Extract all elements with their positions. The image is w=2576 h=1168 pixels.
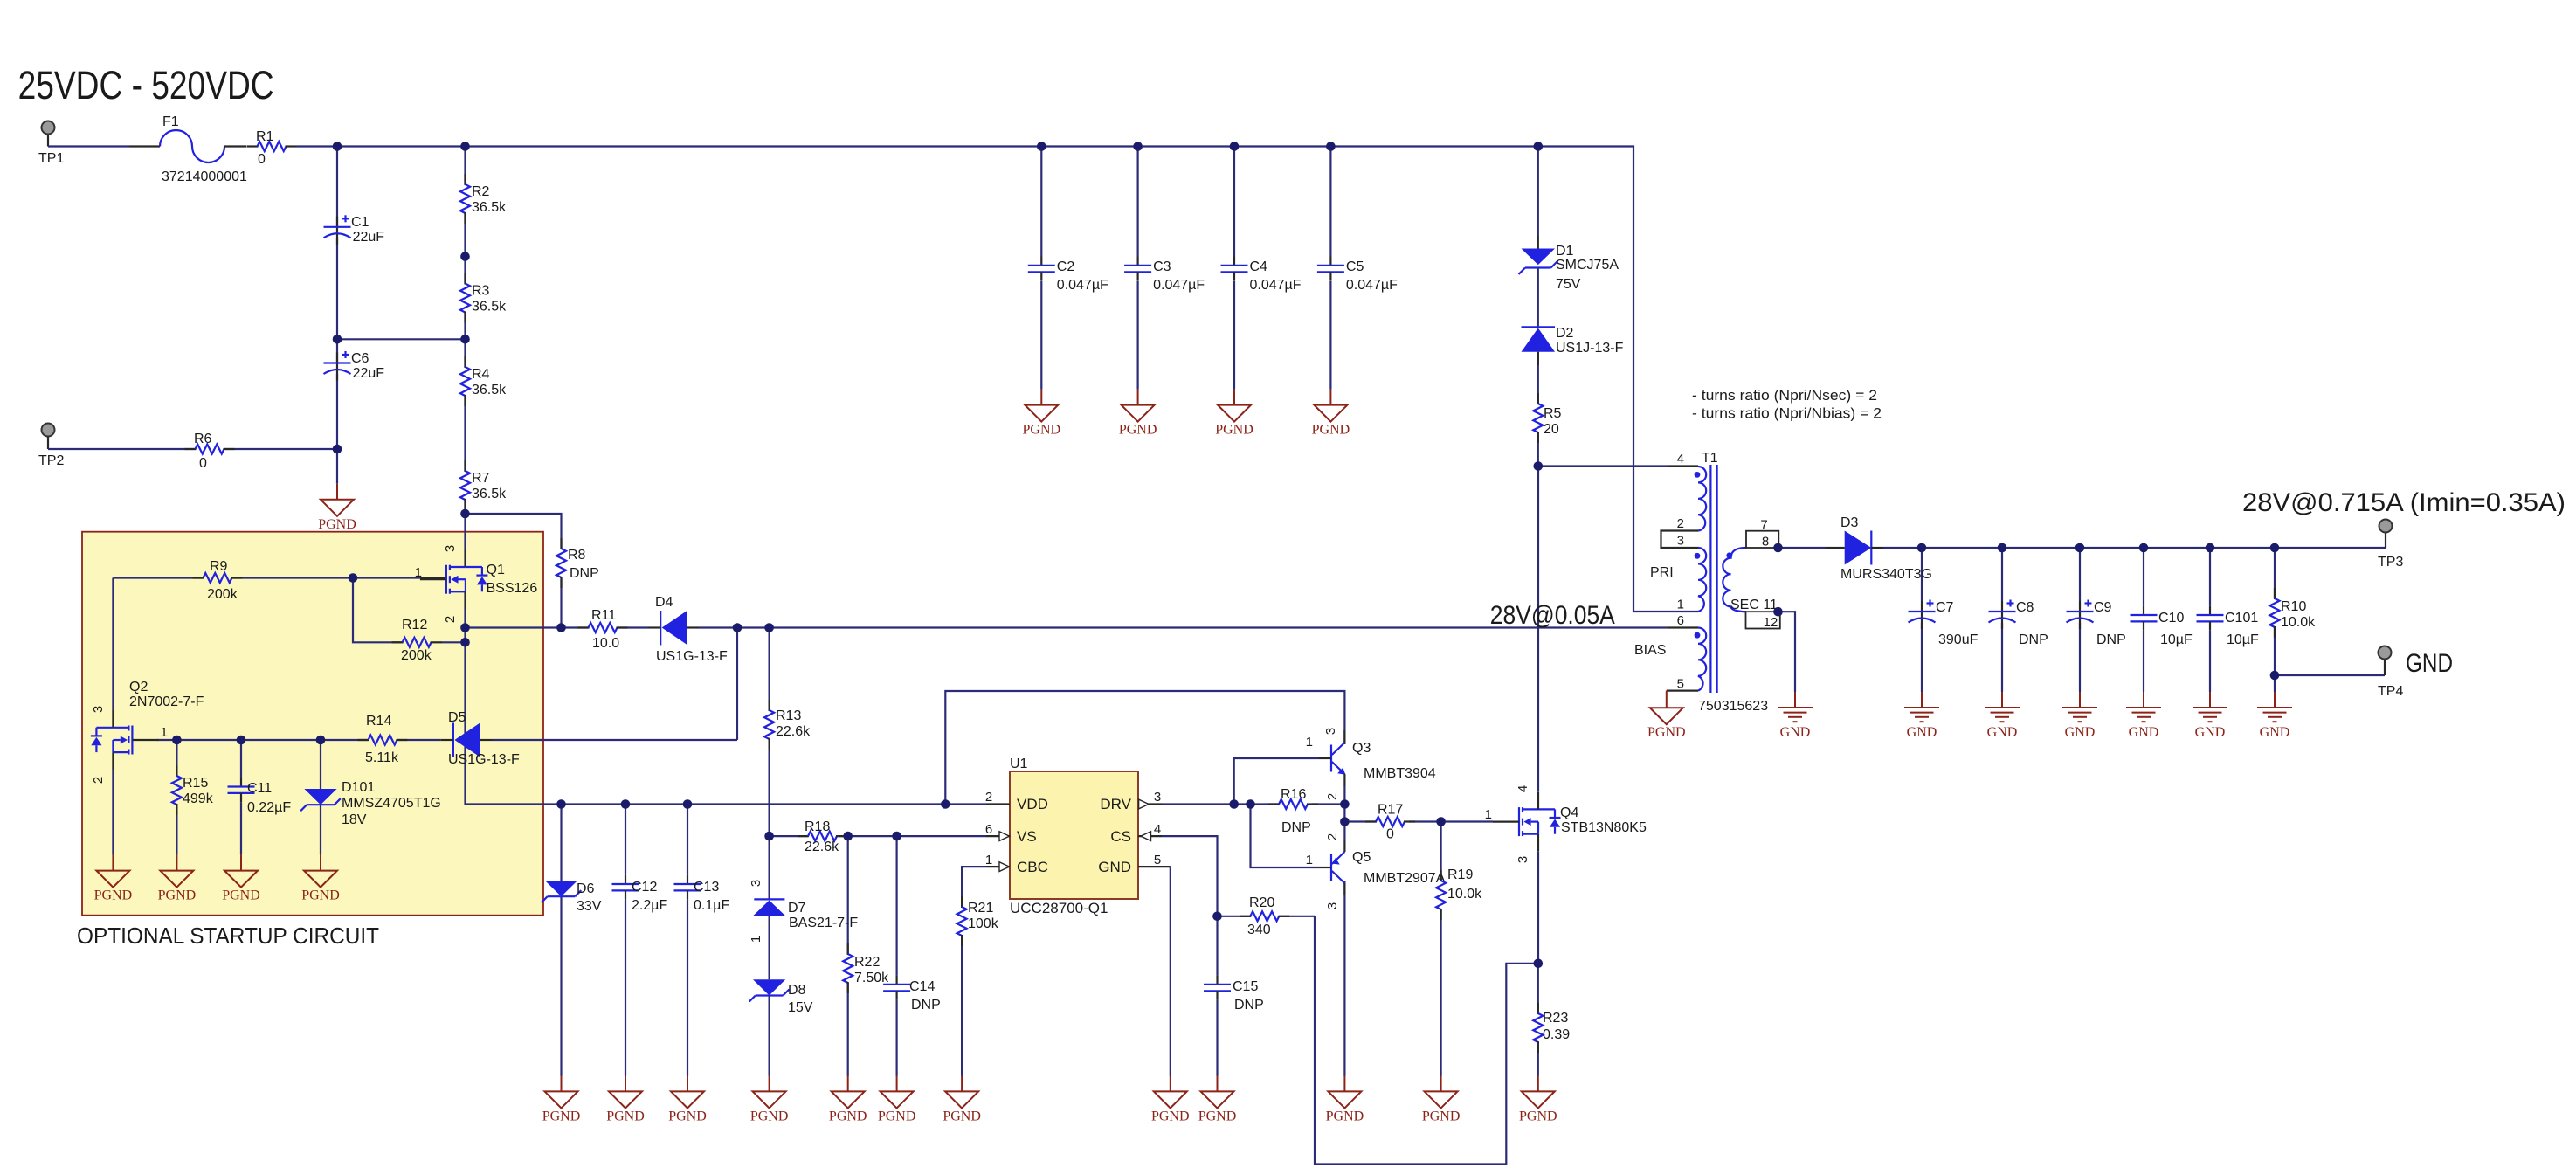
svg-text:C8: C8 — [2016, 600, 2034, 615]
svg-text:R4: R4 — [472, 367, 490, 382]
wire: C12 branch — [625, 805, 626, 1076]
capacitor C10 — [2131, 606, 2193, 647]
svg-text:CS: CS — [1110, 828, 1131, 845]
svg-text:DNP: DNP — [570, 566, 599, 581]
svg-text:750315623: 750315623 — [1698, 699, 1768, 714]
svg-text:22.6k: 22.6k — [805, 840, 839, 854]
svg-text:36.5k: 36.5k — [472, 200, 507, 215]
svg-text:340: 340 — [1247, 923, 1271, 937]
svg-text:5: 5 — [1154, 853, 1161, 867]
svg-text:0.39: 0.39 — [1543, 1027, 1570, 1042]
wire: D101 branch — [320, 740, 321, 855]
transformer T1 750315623 — [1634, 451, 1780, 714]
wire: VDD feedback riser to Q3 collector — [945, 691, 1344, 805]
svg-text:US1G-13-F: US1G-13-F — [656, 649, 728, 664]
svg-text:VDD: VDD — [1017, 796, 1048, 812]
capacitor C5 — [1317, 257, 1398, 293]
wire: C101 branch — [2209, 548, 2211, 692]
wire: Q3/Q5 emitter tie — [1343, 786, 1345, 840]
capacitor C8 — [1989, 600, 2048, 648]
svg-text:R20: R20 — [1249, 895, 1274, 910]
svg-text:DNP: DNP — [2019, 632, 2048, 647]
wire: secondary return pin 12 to GND — [1778, 612, 1796, 692]
resistor R8 — [556, 538, 599, 588]
svg-text:1: 1 — [415, 565, 422, 580]
test point TP4 — [2378, 646, 2403, 700]
ground PGND under R23 — [1519, 1075, 1557, 1123]
svg-text:12: 12 — [1764, 615, 1778, 630]
ground PGND under U1 GND pin — [1151, 1075, 1190, 1123]
svg-text:200k: 200k — [207, 587, 238, 602]
svg-text:1: 1 — [1485, 807, 1492, 822]
svg-text:DRV: DRV — [1100, 796, 1131, 812]
wire: R2/R3 divider column — [464, 147, 466, 368]
svg-text:CBC: CBC — [1017, 859, 1048, 875]
svg-text:R10: R10 — [2281, 599, 2306, 614]
svg-text:10µF: 10µF — [2227, 632, 2259, 647]
svg-text:Q1: Q1 — [487, 563, 505, 577]
svg-text:20: 20 — [1544, 422, 1559, 437]
ground PGND under D8 — [750, 1075, 789, 1123]
wire: U1 GND to PGND — [1170, 867, 1171, 1076]
resistor R6 — [185, 432, 235, 471]
wire: C8 branch — [2001, 548, 2003, 692]
wire: Q5 collector to PGND — [1343, 881, 1345, 1076]
wire: R9 row to Q1 gate — [113, 577, 446, 578]
ground PGND under R15 — [158, 855, 197, 903]
svg-text:36.5k: 36.5k — [472, 300, 507, 314]
wire: C14 branch — [895, 836, 897, 1076]
capacitor C9 — [2067, 600, 2126, 648]
svg-text:3: 3 — [749, 880, 763, 887]
svg-text:D5: D5 — [448, 710, 466, 725]
svg-text:Q2: Q2 — [129, 680, 148, 695]
ground PGND under C13 — [668, 1075, 707, 1123]
svg-text:TP4: TP4 — [2378, 684, 2403, 699]
resistor R18 — [798, 819, 847, 854]
wire: Q3 base riser — [1234, 758, 1319, 805]
svg-text:7: 7 — [1760, 518, 1767, 533]
wire: DRV row — [1162, 803, 1344, 805]
svg-text:5.11k: 5.11k — [365, 750, 399, 765]
svg-text:DNP: DNP — [1234, 998, 1264, 1012]
diode D8 15V zener — [749, 979, 813, 1015]
resistor R3 — [460, 273, 507, 323]
transistor Q5 MMBT2907A — [1306, 833, 1446, 909]
svg-text:5: 5 — [1677, 677, 1684, 692]
svg-text:3: 3 — [1154, 790, 1161, 805]
wire: R13 column from D4 node to VS — [768, 628, 770, 837]
wire: R19 branch — [1440, 822, 1441, 1076]
svg-text:DNP: DNP — [911, 998, 941, 1012]
svg-text:T1: T1 — [1702, 451, 1718, 466]
capacitor C101 — [2197, 606, 2260, 647]
svg-text:C2: C2 — [1057, 259, 1075, 274]
diode D101 MMSZ4705T1G zener — [300, 780, 441, 827]
ground PGND under C2 — [1023, 390, 1061, 438]
resistor R16 — [1268, 787, 1318, 835]
svg-text:10.0k: 10.0k — [2281, 615, 2316, 630]
wire: D7/D8 clamp column — [768, 836, 770, 1076]
svg-text:TP3: TP3 — [2378, 555, 2403, 570]
svg-text:- turns ratio (Npri/Nsec) = 2: - turns ratio (Npri/Nsec) = 2 — [1692, 387, 1877, 404]
svg-text:BAS21-7-F: BAS21-7-F — [789, 916, 858, 930]
svg-text:R19: R19 — [1447, 867, 1473, 882]
ground PGND under C3 — [1119, 390, 1157, 438]
svg-text:C1: C1 — [351, 215, 369, 230]
ground PGND under R22 — [829, 1075, 867, 1123]
transistor Q4 STB13N80K5 — [1485, 785, 1647, 863]
wire: top input rail from TP1 to transformer drop — [48, 135, 1698, 612]
svg-text:3: 3 — [1516, 856, 1530, 863]
wire: VS row with R18 — [770, 835, 986, 837]
svg-text:R23: R23 — [1543, 1011, 1568, 1026]
svg-text:75V: 75V — [1556, 277, 1581, 292]
wire: R22 branch — [847, 836, 849, 1076]
svg-text:GND: GND — [2406, 649, 2453, 678]
resistor R23 — [1533, 1003, 1570, 1053]
svg-text:R16: R16 — [1281, 787, 1306, 802]
diode D5 US1G-13-F — [441, 710, 520, 767]
svg-text:OPTIONAL STARTUP CIRCUIT: OPTIONAL STARTUP CIRCUIT — [77, 923, 379, 949]
svg-text:0.047µF: 0.047µF — [1057, 278, 1108, 293]
resistor R13 — [764, 700, 811, 750]
svg-text:4: 4 — [1154, 822, 1161, 837]
svg-text:D101: D101 — [342, 780, 375, 795]
resistor R22 — [843, 943, 889, 993]
ground PGND under C12 — [606, 1075, 645, 1123]
svg-text:3: 3 — [443, 545, 458, 552]
svg-text:PRI: PRI — [1650, 565, 1674, 580]
wire: Q2 source to PGND — [112, 770, 114, 855]
svg-text:100k: 100k — [968, 916, 999, 931]
svg-text:R22: R22 — [854, 955, 880, 970]
svg-text:BIAS: BIAS — [1634, 643, 1666, 658]
wire: Q4 drain column — [1537, 467, 1539, 792]
ground GND under C7 — [1904, 692, 1939, 740]
capacitor C11 — [228, 778, 292, 815]
svg-text:3: 3 — [1325, 902, 1340, 909]
svg-text:10.0k: 10.0k — [1447, 887, 1482, 902]
svg-text:C14: C14 — [909, 979, 935, 994]
svg-text:STB13N80K5: STB13N80K5 — [1561, 820, 1647, 835]
svg-text:SEC 11: SEC 11 — [1730, 598, 1778, 612]
wire: D1/D2/R5 snubber column — [1538, 147, 1698, 467]
resistor R4 — [460, 356, 507, 406]
svg-text:R6: R6 — [194, 432, 212, 446]
svg-text:0.047µF: 0.047µF — [1153, 278, 1205, 293]
wire: C5 branch — [1329, 147, 1331, 390]
wire: R10 branch and TP4/GND row — [2275, 548, 2385, 692]
test point TP2 — [38, 424, 64, 469]
svg-text:R1: R1 — [256, 129, 274, 144]
svg-text:DNP: DNP — [1281, 820, 1311, 835]
svg-text:C7: C7 — [1936, 600, 1954, 615]
svg-text:MMSZ4705T1G: MMSZ4705T1G — [342, 796, 441, 811]
wire: Q1 source to R11/D4 row (VDD charge path) — [466, 591, 770, 627]
wire: R8 branch — [466, 514, 562, 628]
svg-text:C9: C9 — [2094, 600, 2112, 615]
svg-text:1: 1 — [161, 725, 168, 740]
svg-text:R8: R8 — [568, 548, 586, 563]
svg-text:7.50k: 7.50k — [854, 971, 889, 985]
resistor R9 — [193, 559, 243, 602]
wire: output 28V rail to TP3 — [1883, 533, 2386, 549]
test point TP3 — [2378, 520, 2403, 570]
svg-text:36.5k: 36.5k — [472, 383, 507, 397]
wire: C13 branch — [687, 805, 688, 1076]
svg-text:2: 2 — [1325, 793, 1340, 800]
svg-text:R9: R9 — [210, 559, 228, 574]
svg-text:F1: F1 — [162, 114, 179, 129]
resistor R19 — [1436, 867, 1482, 920]
wire: C11 branch — [240, 740, 242, 855]
wire: R15 branch — [176, 740, 177, 855]
wire: R17 row to Q4 gate — [1344, 820, 1493, 822]
ground GND under C8 — [1985, 692, 2020, 740]
wire: 28V@0.05A bias rail to transformer pin 6 — [770, 626, 1698, 628]
svg-text:R11: R11 — [591, 608, 616, 623]
svg-text:D7: D7 — [788, 901, 806, 916]
transistor Q1 BSS126 — [415, 545, 538, 623]
ground PGND under R21 — [943, 1075, 981, 1123]
ground PGND under R19 — [1422, 1075, 1461, 1123]
diode D3 MURS340T3G — [1833, 515, 1932, 582]
test point TP1 — [38, 121, 64, 167]
svg-text:R14: R14 — [366, 714, 391, 729]
capacitor C7 — [1909, 600, 1979, 648]
svg-text:MMBT3904: MMBT3904 — [1364, 766, 1436, 781]
resistor R1 — [247, 129, 297, 167]
ground PGND under C4 — [1215, 390, 1253, 438]
svg-text:25VDC - 520VDC: 25VDC - 520VDC — [18, 63, 274, 107]
diode D2 US1J-13-F — [1522, 326, 1624, 365]
svg-text:D1: D1 — [1556, 244, 1574, 259]
svg-text:SMCJ75A: SMCJ75A — [1556, 258, 1619, 273]
svg-text:4: 4 — [1516, 785, 1530, 792]
svg-text:US1J-13-F: US1J-13-F — [1556, 341, 1624, 356]
ground GND under secondary — [1778, 692, 1813, 740]
svg-text:- turns ratio (Npri/Nbias) = 2: - turns ratio (Npri/Nbias) = 2 — [1692, 405, 1882, 422]
capacitor C14 — [883, 976, 941, 1012]
svg-text:36.5k: 36.5k — [472, 487, 507, 501]
svg-text:US1G-13-F: US1G-13-F — [448, 752, 520, 767]
wire: Q5 base riser — [1251, 805, 1320, 868]
svg-text:2N7002-7-F: 2N7002-7-F — [129, 695, 204, 709]
wire: C1-C6 mid row — [337, 338, 466, 340]
wire: CS line and R20/C15 node — [1162, 836, 1315, 916]
svg-text:R21: R21 — [968, 901, 993, 916]
svg-text:1: 1 — [1306, 735, 1313, 750]
ground PGND under D101 — [301, 855, 340, 903]
svg-text:8: 8 — [1762, 535, 1769, 549]
capacitor C2 — [1028, 257, 1108, 293]
svg-text:2.2µF: 2.2µF — [632, 898, 667, 913]
svg-text:VS: VS — [1017, 828, 1037, 845]
svg-text:R3: R3 — [472, 284, 490, 299]
wire: C6 branch to PGND — [336, 339, 338, 484]
ground PGND under C11 — [222, 855, 260, 903]
svg-text:2: 2 — [443, 616, 458, 623]
svg-text:33V: 33V — [577, 899, 602, 914]
resistor R12 — [392, 618, 442, 663]
resistor R15 — [172, 765, 214, 815]
ground PGND under Q5 — [1326, 1075, 1364, 1123]
diode D6 33V zener — [542, 881, 602, 914]
wire: C2 branch — [1040, 147, 1042, 390]
svg-text:D4: D4 — [655, 595, 673, 610]
svg-text:R15: R15 — [183, 776, 208, 791]
svg-text:22uF: 22uF — [353, 366, 385, 381]
wire: C4 branch — [1233, 147, 1235, 390]
ground GND under C9 — [2062, 692, 2097, 740]
ground PGND under D6 — [542, 1075, 581, 1123]
wire: current sense loop to R23 node — [1315, 916, 1538, 1165]
svg-text:2: 2 — [985, 790, 992, 805]
svg-text:D3: D3 — [1840, 515, 1859, 530]
capacitor C15 — [1204, 976, 1264, 1012]
svg-text:0: 0 — [258, 152, 266, 167]
svg-text:28V@0.715A (Imin=0.35A): 28V@0.715A (Imin=0.35A) — [2242, 488, 2566, 517]
svg-text:0.047µF: 0.047µF — [1250, 278, 1302, 293]
resistor R7 — [460, 460, 507, 510]
svg-text:U1: U1 — [1010, 757, 1028, 771]
svg-text:37214000001: 37214000001 — [162, 169, 247, 184]
svg-text:GND: GND — [1098, 859, 1131, 875]
svg-text:15V: 15V — [788, 1000, 813, 1015]
capacitor C3 — [1124, 257, 1205, 293]
ground PGND under C6 — [318, 484, 356, 532]
resistor R10 — [2270, 588, 2317, 638]
capacitor C13 — [674, 875, 730, 913]
diode D4 US1G-13-F — [648, 595, 728, 664]
svg-text:Q5: Q5 — [1352, 850, 1371, 865]
wire: D6 branch — [560, 805, 562, 1076]
svg-text:10.0: 10.0 — [592, 636, 619, 651]
svg-text:C11: C11 — [247, 781, 272, 796]
diode D7 BAS21-7-F — [749, 880, 858, 943]
svg-text:MURS340T3G: MURS340T3G — [1840, 567, 1932, 582]
svg-text:UCC28700-Q1: UCC28700-Q1 — [1010, 900, 1108, 916]
resistor R11 — [578, 608, 628, 651]
svg-text:TP1: TP1 — [38, 151, 64, 166]
svg-text:C6: C6 — [351, 351, 369, 366]
svg-text:C13: C13 — [694, 880, 719, 895]
svg-text:C101: C101 — [2225, 611, 2258, 625]
svg-text:2: 2 — [1325, 833, 1340, 840]
svg-text:0: 0 — [1386, 827, 1394, 842]
svg-text:3: 3 — [1323, 728, 1338, 735]
ground PGND under Q2 — [94, 855, 133, 903]
wire: Q2 drain column — [112, 578, 114, 711]
resistor R14 — [358, 714, 408, 765]
svg-text:R5: R5 — [1544, 406, 1562, 421]
svg-text:C3: C3 — [1153, 259, 1171, 274]
svg-text:499k: 499k — [183, 791, 214, 806]
svg-text:0: 0 — [199, 456, 207, 471]
svg-text:Q3: Q3 — [1352, 741, 1371, 756]
wire: TP2 / R6 row — [48, 437, 337, 450]
svg-text:6: 6 — [985, 822, 992, 837]
svg-text:TP2: TP2 — [38, 453, 64, 468]
svg-text:R17: R17 — [1378, 803, 1403, 818]
fuse F1 — [129, 114, 247, 184]
ground PGND under C5 — [1312, 390, 1350, 438]
capacitor C12 — [612, 875, 668, 913]
svg-text:C4: C4 — [1250, 259, 1268, 274]
svg-text:0.1µF: 0.1µF — [694, 898, 729, 913]
svg-text:C15: C15 — [1233, 979, 1258, 994]
ground GND under C10 — [2126, 692, 2161, 740]
svg-text:3: 3 — [1677, 534, 1684, 549]
wire: C3 branch — [1136, 147, 1138, 390]
transistor Q2 2N7002-7-F — [91, 680, 204, 784]
svg-text:18V: 18V — [342, 812, 367, 827]
wire: C1 branch — [336, 147, 338, 340]
svg-text:C10: C10 — [2158, 611, 2184, 625]
ground PGND under C14 — [878, 1075, 916, 1123]
diode D1 SMCJ75A TVS — [1519, 236, 1619, 292]
optional startup circuit highlight box — [77, 532, 543, 949]
svg-text:0.047µF: 0.047µF — [1346, 278, 1398, 293]
svg-text:200k: 200k — [401, 648, 432, 663]
svg-text:R12: R12 — [402, 618, 427, 632]
svg-text:1: 1 — [1677, 598, 1684, 612]
svg-text:4: 4 — [1677, 452, 1684, 467]
svg-text:PGND: PGND — [1647, 725, 1686, 740]
ground PGND under transformer pin 5 — [1647, 691, 1686, 740]
resistor R17 — [1365, 803, 1415, 842]
svg-text:R7: R7 — [472, 471, 490, 486]
svg-text:DNP: DNP — [2096, 632, 2126, 647]
wire: R4/R7 column down to startup node — [464, 396, 466, 567]
node junction dots — [172, 142, 2279, 968]
svg-text:1: 1 — [985, 853, 992, 867]
ground GND under R10 — [2257, 692, 2292, 740]
svg-text:10µF: 10µF — [2160, 632, 2193, 647]
wire: VDD row from startup box to U1 — [466, 740, 987, 805]
svg-text:22uF: 22uF — [353, 230, 385, 245]
transistor Q3 MMBT3904 — [1306, 728, 1436, 800]
svg-text:R2: R2 — [472, 184, 490, 199]
resistor R5 — [1533, 393, 1561, 443]
svg-text:390uF: 390uF — [1938, 632, 1979, 647]
svg-text:Q4: Q4 — [1560, 805, 1578, 820]
svg-text:MMBT2907A: MMBT2907A — [1364, 871, 1446, 886]
svg-text:D8: D8 — [788, 983, 806, 998]
wire: Q2 gate row through R15/C11/D101 to R14 and D5 — [157, 628, 737, 741]
svg-text:0.22µF: 0.22µF — [247, 800, 291, 815]
svg-text:22.6k: 22.6k — [776, 724, 811, 739]
wire: C9 branch — [2079, 548, 2081, 692]
ground GND under C101 — [2193, 692, 2227, 740]
svg-text:R18: R18 — [805, 819, 830, 834]
svg-text:R13: R13 — [776, 708, 801, 723]
note: turns ratio annotations — [1692, 387, 1882, 422]
svg-text:2: 2 — [91, 777, 106, 784]
svg-text:2: 2 — [1677, 516, 1684, 531]
svg-text:C5: C5 — [1346, 259, 1364, 274]
capacitor C6 — [324, 351, 385, 381]
resistor R2 — [460, 174, 507, 224]
wire: CBC to R21 — [962, 867, 986, 1076]
svg-text:D2: D2 — [1556, 326, 1574, 341]
resistor R20 — [1240, 895, 1289, 937]
wire: C10 branch — [2143, 548, 2144, 692]
svg-text:BSS126: BSS126 — [487, 581, 538, 596]
capacitor C1 — [324, 215, 385, 245]
wire: R12 row and Q1 gate node — [353, 578, 466, 741]
